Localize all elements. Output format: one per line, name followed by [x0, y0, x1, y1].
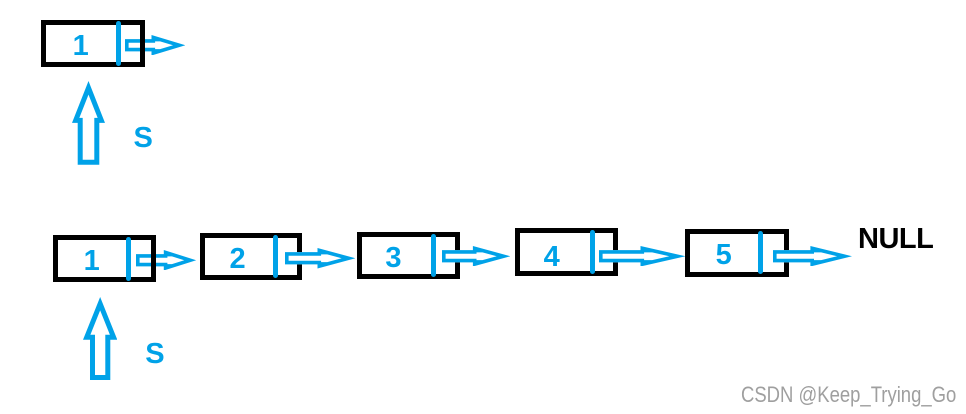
node 1: value label 1	[62, 247, 122, 276]
node A (value 1, top list): rectangle	[41, 20, 145, 67]
pointer arrow node 2 to node 3	[285, 248, 356, 269]
S pointer up-arrow (top list)	[72, 81, 105, 165]
node A (value 1, top list): pointer-field divider	[116, 21, 121, 66]
node 2: value label 2	[208, 245, 268, 274]
node 2: rectangle	[200, 233, 302, 280]
node 5: pointer-field divider	[758, 231, 763, 274]
node 3: value label 3	[364, 244, 424, 273]
watermark CSDN @Keep_Trying_Go	[741, 384, 956, 406]
pointer arrow node 3 to node 4	[442, 246, 510, 267]
node 4: pointer-field divider	[590, 230, 595, 274]
node 1: rectangle	[53, 235, 156, 282]
node 5: value label 5	[694, 241, 754, 270]
label S (top list)	[134, 124, 153, 153]
node 3: rectangle	[357, 232, 460, 279]
pointer arrow node 5 to NULL	[773, 246, 852, 267]
node 4: rectangle	[515, 228, 618, 276]
S pointer up-arrow (bottom list)	[83, 297, 117, 380]
node 3: pointer-field divider	[431, 234, 436, 277]
pointer arrow node 4 to node 5	[599, 246, 686, 267]
node 1: pointer-field divider	[126, 237, 131, 281]
pointer arrow from node A	[125, 35, 186, 56]
node A (value 1, top list): value label 1	[51, 32, 111, 61]
pointer arrow node 1 to node 2	[136, 250, 196, 271]
NULL terminator label	[858, 225, 933, 254]
node 4: value label 4	[522, 243, 582, 272]
node 2: pointer-field divider	[273, 235, 278, 278]
node 5: rectangle	[685, 229, 789, 277]
label S (bottom list)	[145, 340, 164, 369]
